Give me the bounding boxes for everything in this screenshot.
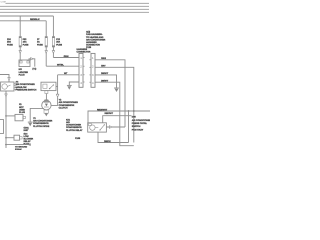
label harness connector header bbox=[77, 48, 91, 54]
svg-text:C109: C109 bbox=[75, 137, 81, 140]
svg-text:Y3: Y3 bbox=[59, 99, 62, 102]
svg-text:10A: 10A bbox=[23, 41, 27, 44]
svg-text:FUSE: FUSE bbox=[56, 43, 62, 46]
wire fuse F7 top bbox=[45, 21, 47, 37]
svg-text:4: 4 bbox=[92, 82, 94, 85]
ground right bbox=[114, 88, 119, 92]
header rule 3 bbox=[0, 8, 149, 10]
pin box below box B bbox=[45, 91, 48, 94]
svg-text:A4: A4 bbox=[16, 81, 20, 84]
svg-text:PCM OKAY: PCM OKAY bbox=[132, 128, 144, 131]
connector arrow on F7 wire bbox=[45, 51, 47, 54]
box1 component bbox=[15, 114, 25, 120]
svg-text:20A: 20A bbox=[7, 41, 11, 44]
wire feeder bus 2 bbox=[0, 20, 46, 22]
svg-text:ORG: ORG bbox=[101, 57, 106, 60]
svg-text:3: 3 bbox=[80, 74, 82, 77]
wire fuse F10 top bbox=[19, 16, 21, 37]
label compressor clutch bbox=[59, 99, 79, 110]
svg-text:D40: D40 bbox=[132, 116, 137, 119]
pin box clutch bottom bbox=[44, 110, 48, 113]
svg-text:A(2): A(2) bbox=[86, 31, 90, 34]
wire entry left mid bbox=[0, 75, 9, 83]
wire row3 left (WT) bbox=[58, 74, 79, 76]
svg-text:CONNECTOR: CONNECTOR bbox=[86, 44, 100, 47]
ground clutch bbox=[28, 122, 33, 126]
svg-text:K31: K31 bbox=[66, 118, 71, 121]
wire row3 right (DB/WT) to ground bbox=[95, 75, 117, 88]
pin numbers left bar bbox=[80, 57, 82, 85]
note block cab harness bbox=[86, 31, 106, 50]
wire fuse F10 bottom bbox=[19, 47, 21, 60]
svg-text:NO: NO bbox=[19, 68, 23, 71]
svg-text:GRN: GRN bbox=[64, 55, 69, 58]
wire branch to box1 bbox=[6, 115, 15, 117]
svg-text:USED: USED bbox=[19, 108, 25, 111]
pressure switch box B bbox=[41, 82, 56, 90]
label box1 bbox=[19, 103, 25, 114]
svg-text:1: 1 bbox=[92, 57, 94, 60]
svg-text:GRY: GRY bbox=[101, 65, 106, 68]
wire row1 right (ORG) to relay bbox=[95, 60, 125, 127]
pin stubs left bar inner edge bbox=[83, 58, 85, 83]
connector arrow on entry wire bbox=[8, 78, 10, 81]
svg-text:LIGHTER: LIGHTER bbox=[19, 71, 29, 74]
svg-text:CAB HARNESS-: CAB HARNESS- bbox=[86, 33, 103, 36]
wire left drop from box A bbox=[5, 91, 7, 148]
svg-text:X1: X1 bbox=[19, 103, 22, 106]
svg-text:Y3: Y3 bbox=[33, 117, 36, 120]
node junction box1 bbox=[5, 115, 7, 117]
svg-text:RED/WT: RED/WT bbox=[105, 112, 114, 115]
svg-text:INST: INST bbox=[24, 129, 30, 132]
svg-text:F32: F32 bbox=[23, 38, 27, 41]
wire row2 left (WT/BL) bbox=[46, 65, 79, 67]
wire box B to vertical bbox=[56, 86, 58, 88]
svg-text:CONDITIONER: CONDITIONER bbox=[66, 124, 81, 127]
svg-text:DB/PK: DB/PK bbox=[104, 140, 111, 143]
label fuse F10 right bbox=[23, 38, 29, 47]
svg-text:3: 3 bbox=[92, 74, 94, 77]
label clutch diode bbox=[33, 117, 53, 128]
svg-text:PRESSURE SWITCH: PRESSURE SWITCH bbox=[16, 88, 37, 91]
label box2 bbox=[24, 127, 34, 146]
connector arrow on F10 wire bbox=[19, 51, 21, 54]
connector ticks bottom branch bbox=[28, 143, 30, 146]
svg-text:FUSE: FUSE bbox=[37, 43, 43, 46]
connector arrow relay output bbox=[109, 126, 112, 129]
svg-text:AIR CONDITIONER: AIR CONDITIONER bbox=[132, 119, 150, 122]
svg-text:PLUG: PLUG bbox=[19, 111, 25, 114]
fuse F7 bbox=[45, 36, 48, 47]
wire fuse F12 top bbox=[52, 16, 54, 37]
label fuse F7 bbox=[37, 38, 43, 47]
wire drop from splice on wire1 bbox=[128, 111, 130, 143]
wire row4 left ground stub bbox=[69, 82, 79, 85]
svg-text:RED/BLK: RED/BLK bbox=[30, 18, 40, 21]
svg-text:PRESS CNTRL: PRESS CNTRL bbox=[132, 122, 148, 125]
svg-text:COMPRESSOR: COMPRESSOR bbox=[59, 104, 75, 107]
svg-text:DB/WT: DB/WT bbox=[101, 72, 109, 75]
svg-text:NOT: NOT bbox=[19, 106, 24, 109]
pin stubs right bar inner edge bbox=[89, 60, 91, 82]
svg-text:FUSE: FUSE bbox=[7, 43, 13, 46]
node dot wire1 at drop bbox=[128, 110, 130, 112]
connector bar left half bbox=[79, 53, 83, 87]
svg-text:4: 4 bbox=[80, 82, 82, 85]
svg-text:STRAP: STRAP bbox=[15, 148, 22, 150]
svg-text:AIR CONDITIONER: AIR CONDITIONER bbox=[33, 120, 53, 123]
svg-text:F7: F7 bbox=[37, 38, 40, 41]
svg-text:AIR: AIR bbox=[66, 121, 70, 124]
connector arrow on F12 wire bbox=[52, 51, 54, 54]
svg-text:DB/WT: DB/WT bbox=[101, 80, 109, 83]
connector bar right half bbox=[91, 53, 95, 87]
svg-text:WT/BL: WT/BL bbox=[57, 63, 64, 66]
svg-text:F10: F10 bbox=[7, 38, 11, 41]
svg-text:CLUTCH RELAY: CLUTCH RELAY bbox=[66, 129, 83, 132]
svg-text:HIGH/LOW: HIGH/LOW bbox=[16, 86, 28, 89]
wire lighter plug to T1 bbox=[29, 59, 35, 67]
node junction box2 bbox=[5, 137, 7, 139]
wire pressure vertical bbox=[57, 75, 59, 94]
connector arrow on pressure vertical bbox=[56, 94, 59, 97]
wire box B pin to clutch bbox=[45, 94, 47, 100]
node junction bottom branch bbox=[5, 144, 7, 146]
wire row2 right (GRY) bbox=[95, 67, 134, 142]
wire relay bottom (DB/PK) bbox=[98, 132, 129, 142]
svg-text:1: 1 bbox=[80, 57, 82, 60]
label bottom branch bbox=[15, 146, 28, 151]
svg-text:2: 2 bbox=[92, 65, 94, 68]
wire branch to box2 bbox=[6, 137, 14, 139]
svg-text:CLUTCH DIODE: CLUTCH DIODE bbox=[33, 125, 50, 128]
lighter plug box bbox=[19, 60, 30, 67]
ground left bbox=[67, 85, 72, 89]
connector arrow on left drop bbox=[5, 94, 7, 97]
svg-text:AIR CONDITIONER: AIR CONDITIONER bbox=[59, 101, 79, 104]
svg-text:AIR CONDITIONER: AIR CONDITIONER bbox=[86, 38, 106, 41]
box2 component bbox=[14, 135, 22, 140]
label relay K31 bbox=[66, 118, 83, 131]
label fuse F10 left bbox=[7, 38, 13, 47]
node dot wire1 at row2 vertical bbox=[133, 110, 135, 112]
wire feeder bus 1 bbox=[0, 15, 53, 17]
svg-text:COMPRESSOR: COMPRESSOR bbox=[66, 126, 82, 129]
svg-text:TO HEATER AND: TO HEATER AND bbox=[86, 36, 104, 39]
wire fuse F12 bottom bbox=[52, 47, 54, 58]
label fuse F12 bbox=[56, 38, 62, 47]
label D40 pressure switch bbox=[132, 116, 152, 132]
svg-text:RED/WHT: RED/WHT bbox=[97, 108, 108, 111]
wire fuse F7 bottom bbox=[45, 47, 47, 66]
connector arrow clutch diode bbox=[45, 113, 48, 116]
svg-text:2: 2 bbox=[80, 65, 82, 68]
label lighter plug bbox=[19, 68, 29, 77]
svg-text:20A: 20A bbox=[56, 41, 60, 44]
svg-text:CLUTCH: CLUTCH bbox=[59, 106, 68, 109]
fuse F12 bbox=[52, 36, 55, 47]
wire relay output to row1 vertical bbox=[106, 126, 125, 128]
header rule 2 bbox=[0, 5, 149, 7]
header rule 1 bbox=[6, 2, 150, 4]
wire row1 left (GRN) bbox=[53, 57, 79, 59]
compressor clutch Y3 bbox=[42, 100, 51, 110]
header rule 4 bbox=[0, 11, 149, 13]
wire clutch to ground bbox=[30, 108, 44, 122]
left edge component box bbox=[0, 120, 4, 134]
pin numbers right bar bbox=[92, 57, 94, 85]
label cutoff switch bbox=[16, 81, 37, 92]
wire row4 right (DB/WT) bbox=[95, 82, 134, 146]
svg-text:FUSE: FUSE bbox=[23, 43, 29, 46]
connector arrow on T1 branch bbox=[31, 58, 34, 60]
wire1 relay feed (RED/WHT) bbox=[88, 111, 150, 123]
relay K31 box bbox=[88, 123, 107, 132]
svg-text:HARNESS: HARNESS bbox=[86, 41, 97, 44]
wire pressure vertical lower bbox=[51, 97, 58, 105]
svg-text:F12: F12 bbox=[56, 38, 60, 41]
svg-text:COMPRESSOR: COMPRESSOR bbox=[33, 122, 49, 125]
svg-text:3A: 3A bbox=[37, 41, 40, 44]
cutoff switch box A bbox=[1, 82, 17, 91]
svg-text:CONNECTOR: CONNECTOR bbox=[77, 50, 91, 53]
fuse F10 bbox=[19, 36, 22, 47]
svg-text:PLUG: PLUG bbox=[19, 74, 25, 77]
svg-text:COM: COM bbox=[1, 2, 6, 4]
wire bottom branch bbox=[6, 144, 31, 146]
wire2 relay coil feed (RED/WT) bbox=[103, 116, 132, 123]
svg-text:SWITCH: SWITCH bbox=[132, 125, 141, 128]
svg-text:(T1): (T1) bbox=[32, 67, 36, 70]
svg-text:AIR CONDITIONER: AIR CONDITIONER bbox=[16, 83, 36, 86]
